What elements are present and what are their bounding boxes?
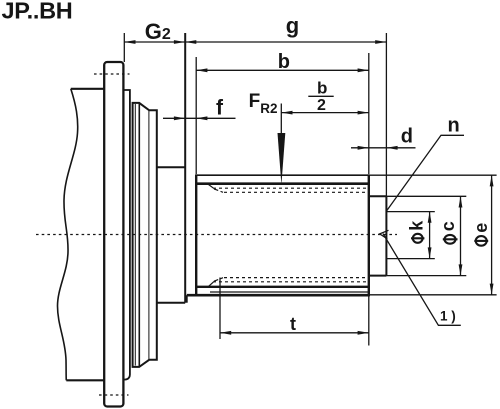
d left arrow (outside) [358,146,369,150]
flange bolt hidden line bottom [99,394,129,396]
keyway hidden line bottom 2 [224,277,369,279]
extension line t left [219,278,221,340]
shaft top inner thick line [196,182,369,185]
dimension arrowheads [124,40,493,335]
leader n [387,135,464,211]
phi-c bottom arrow [459,264,463,275]
keyway hidden line top 1 [213,187,369,189]
keyway lead slope top [209,185,214,189]
extension line phi-e top [369,174,497,176]
extension line phi-c bottom [386,275,466,277]
dimension line phi-k [429,212,431,259]
ring collar face [184,33,186,303]
dimension line phi-c [460,196,462,275]
keyway slope dash bottom [214,278,223,282]
t left arrow [220,331,231,335]
f left arrow (outside) [174,116,185,120]
shaft bottom outer edge [187,294,369,297]
gear housing top edge [71,88,105,90]
svg-text:G2: G2 [145,19,171,44]
svg-text:t: t [290,314,296,334]
svg-text:c: c [438,221,458,231]
phi-k bottom arrow [428,247,432,258]
centerline [36,234,397,236]
d right arrow (outside) [386,146,397,150]
pilot section outline [369,196,387,275]
flange bolt hidden line top [94,73,130,75]
extension line phi-k bottom [386,258,434,260]
flange plate [104,62,123,407]
leader 1) arrowhead [380,230,389,239]
g right arrow [375,40,386,44]
shaft shoulder [195,174,197,296]
svg-text:2: 2 [317,97,326,114]
svg-text:k: k [407,220,427,231]
f right arrow (outside) [196,116,207,120]
svg-text:n: n [448,115,460,137]
svg-text:e: e [471,223,491,233]
dimension line d [351,147,416,149]
step below ring [186,295,188,303]
svg-text:FR2: FR2 [249,91,278,116]
keyway hidden line top 2 [224,191,369,193]
dimension line b/2 [281,112,369,114]
extension line phi-c top [386,195,466,197]
phi-c top arrow [459,196,463,207]
keyway hidden line bottom 1 [213,281,369,283]
svg-text:JP..BH: JP..BH [2,0,73,23]
b/2 right arrow [358,111,369,115]
cap inner line 2 [138,103,140,367]
G2 right arrow [174,40,185,44]
svg-text:g: g [286,13,299,38]
leader 1) [383,234,461,326]
extension line shoulder [195,57,197,174]
svg-text:d: d [401,126,413,148]
extension line shaft end lower [368,295,370,346]
shaft top outer edge [196,174,369,176]
svg-text:1 ): 1 ) [440,308,456,323]
extension line phi-k top [386,211,434,213]
extension line pilot end [385,33,387,196]
dimension line t [220,332,369,334]
cap inner line 1 [134,104,136,366]
shaft end face [368,174,370,296]
t right arrow [358,331,369,335]
shaft bottom faint line [210,291,369,293]
force line F_R2 [280,104,282,135]
extension line phi-e bottom [369,294,497,296]
phi-e bottom arrow [490,284,494,295]
cap inner line 3 [148,110,150,359]
phi-k top arrow [428,212,432,223]
b/2 left arrow [281,111,292,115]
svg-text:f: f [216,97,224,120]
dimension line f [163,117,236,119]
plate B [123,90,129,380]
shaft bottom inner thick line [196,286,369,288]
svg-text:b: b [278,51,290,73]
dimension line G2 and g [124,41,386,43]
g left arrow [185,40,196,44]
gear housing bottom edge [66,379,104,381]
phi-e top arrow [490,175,494,186]
keyway slope dash top [214,189,223,192]
keyway lead slope bottom [209,282,214,287]
ring collar top [157,166,185,168]
svg-text:b: b [317,78,327,97]
extension line shaft end upper [368,53,370,174]
force arrow [278,133,286,185]
bearing cap outline [133,103,157,367]
gear housing wavy break line [58,89,78,381]
dimension line b [196,69,369,71]
dimension line phi-e [491,175,493,295]
ring collar bottom [157,302,185,304]
extension line flange top [123,33,125,62]
G2 left arrow [124,40,135,44]
b right arrow [358,68,369,72]
b left arrow [196,68,207,72]
